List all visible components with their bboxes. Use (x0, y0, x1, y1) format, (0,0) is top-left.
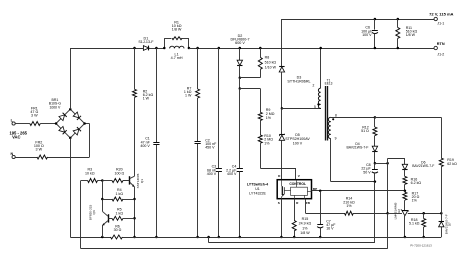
svg-text:1 W: 1 W (143, 97, 150, 101)
svg-text:100 V: 100 V (293, 141, 303, 145)
capacitor C1 (155, 47, 158, 50)
svg-text:4.7 mH: 4.7 mH (171, 56, 183, 60)
wire secondary return line (208, 237, 210, 243)
wire output positive rail (282, 19, 434, 21)
capacitor C7 (319, 190, 322, 193)
U1 internal control block (291, 187, 308, 195)
svg-text:1%: 1% (302, 226, 308, 230)
svg-text:400 V: 400 V (140, 144, 150, 148)
svg-text:D7: D7 (448, 222, 452, 226)
svg-text:3 W: 3 W (31, 114, 38, 118)
resistor R9 (258, 112, 262, 120)
svg-text:CONTROL: CONTROL (289, 182, 306, 186)
wire output rail corner (281, 19, 283, 66)
wire rail D2 to T1 (240, 48, 321, 50)
resistor R5 (112, 216, 123, 220)
wire bridge bottom to ground rail (70, 138, 72, 237)
wire R8 to D2 node (240, 77, 260, 79)
svg-text:1%: 1% (346, 204, 352, 208)
resistor R2 (133, 47, 136, 50)
output terminal J1-2 (434, 46, 437, 49)
shunt regulator U2 LM431 (404, 200, 406, 210)
input terminal L (12, 122, 15, 125)
svg-text:STTH1R06RL: STTH1R06RL (287, 79, 310, 83)
svg-text:400 V: 400 V (207, 172, 217, 176)
svg-text:50 V: 50 V (363, 170, 371, 174)
fusible resistor FR2 (37, 155, 48, 159)
wire fb dot to U2 (388, 213, 402, 215)
svg-text:LYTSwitch-4: LYTSwitch-4 (247, 182, 268, 186)
resistor R1 parallel loop (164, 38, 166, 48)
svg-text:R8: R8 (265, 56, 270, 60)
wire D2 cathode to node (239, 65, 241, 77)
wire secondary pin9 return (330, 139, 332, 182)
svg-text:1/8 W: 1/8 W (406, 33, 416, 37)
svg-text:N: N (10, 152, 13, 156)
diode D7 (441, 213, 443, 221)
svg-text:J1-2: J1-2 (437, 52, 444, 56)
svg-text:J1-1: J1-1 (437, 22, 444, 26)
resistor R3 (81, 180, 88, 182)
wire N to FR2 (15, 157, 37, 159)
resistor R15 (292, 221, 296, 231)
wire node to T1 primary pin5 (282, 108, 321, 110)
diode D3 (279, 66, 284, 68)
wire R14 to fb dot (353, 213, 387, 215)
svg-text:RTN: RTN (437, 42, 445, 46)
svg-text:3 W: 3 W (36, 148, 43, 152)
resistor R4 (101, 198, 104, 201)
svg-text:1%: 1% (264, 141, 270, 145)
wire rail L1 to D2 (189, 48, 240, 50)
wire D4 to bias node (374, 152, 376, 164)
resistor R12 (374, 117, 376, 127)
resistor R7 (196, 47, 199, 50)
svg-text:1%: 1% (412, 199, 418, 203)
svg-text:1/8 W: 1/8 W (300, 231, 310, 235)
svg-text:1000 V: 1000 V (49, 106, 61, 110)
resistor R10 (258, 135, 262, 143)
svg-text:U2: U2 (397, 209, 401, 213)
capacitor C8 (374, 163, 376, 169)
capacitor C6 (374, 18, 377, 21)
svg-text:16 V: 16 V (326, 227, 334, 231)
wire rail T1 to J1-2 (321, 48, 434, 50)
resistor R8 (259, 47, 262, 50)
transformer T1 secondary winding (328, 117, 330, 138)
wire C8 bottom return (374, 182, 376, 243)
svg-text:51 Ω: 51 Ω (361, 129, 369, 133)
svg-text:100 Ω: 100 Ω (114, 171, 124, 175)
fusible resistor FR1 (30, 122, 41, 126)
svg-text:VAC: VAC (12, 134, 20, 139)
svg-text:1 W: 1 W (185, 94, 192, 98)
wire FR2 to bridge right vertex (48, 157, 90, 159)
capacitor C3 (218, 47, 221, 50)
wire bridge top to rail (70, 48, 72, 109)
svg-text:510 kΩ: 510 kΩ (265, 61, 277, 65)
resistor R18 (423, 213, 425, 218)
diode D5 (281, 108, 283, 134)
resistor R19 (441, 117, 443, 158)
svg-text:450 V: 450 V (205, 146, 215, 150)
capacitor C2 (197, 98, 199, 141)
wire rail D1 to L1 (149, 48, 164, 50)
svg-text:600 V: 600 V (235, 41, 245, 45)
diode D1 (143, 46, 148, 51)
svg-text:PI-7200-121613: PI-7200-121613 (410, 243, 432, 247)
wire bias to D6 (387, 158, 389, 163)
svg-text:5.1 kΩ: 5.1 kΩ (409, 222, 420, 226)
wire R16 to BP node (404, 184, 406, 191)
wire S pin to ground (281, 199, 283, 237)
input terminal N (12, 155, 15, 158)
resistor R6 (111, 235, 123, 239)
svg-text:1/10 W: 1/10 W (265, 65, 277, 69)
ground rail junctions (101, 236, 104, 239)
svg-text:1 kΩ: 1 kΩ (116, 192, 124, 196)
svg-text:9: 9 (335, 137, 337, 141)
resistor R20 (112, 179, 123, 183)
svg-text:2: 2 (313, 83, 315, 87)
svg-text:1/8 W: 1/8 W (172, 28, 182, 32)
wire Q3 emitter to ground (102, 226, 104, 238)
svg-text:BAV21WS-7-F: BAV21WS-7-F (347, 146, 369, 150)
wire FB pin (305, 199, 307, 214)
svg-text:10 kΩ: 10 kΩ (85, 171, 95, 175)
transformer T1 primary winding (320, 48, 322, 88)
svg-text:U1: U1 (255, 187, 260, 191)
node rail R3-R20 column (102, 181, 104, 212)
diode D4 (374, 136, 376, 147)
svg-text:24.9 kΩ: 24.9 kΩ (299, 222, 312, 226)
T1 secondary phase dot (332, 118, 334, 120)
wire U2 ref to R18 and D7 (408, 213, 442, 215)
svg-text:30 Ω: 30 Ω (114, 228, 122, 232)
wire D3 anode to node (281, 72, 283, 108)
svg-text:LYT4322E: LYT4322E (249, 191, 266, 195)
svg-text:BAV21WS-7-F: BAV21WS-7-F (412, 164, 434, 168)
svg-text:400 V: 400 V (227, 172, 237, 176)
U1 internal MOSFET (281, 180, 283, 187)
wire D2 node to R9 (240, 88, 260, 90)
transformer T1 core (325, 86, 327, 141)
output terminal J1-1 (434, 17, 437, 20)
svg-text:Q1: Q1 (140, 179, 144, 183)
resistor R11 (397, 18, 400, 21)
wire FR1 to bridge (40, 123, 56, 125)
wire D5 to drain pin (281, 140, 283, 179)
wire R3 rail down (80, 181, 82, 249)
capacitor C4 (239, 89, 241, 169)
wire R10 to V pin (260, 168, 296, 170)
diode D6 (402, 164, 407, 169)
wire main rail (70, 48, 143, 50)
svg-text:72 V, 115 mA: 72 V, 115 mA (429, 11, 453, 16)
transistor Q3 (108, 214, 110, 222)
svg-text:8: 8 (335, 114, 337, 118)
svg-text:1%: 1% (266, 116, 272, 120)
wire feedback bottom line (81, 248, 388, 250)
inductor L1 (170, 46, 184, 48)
svg-text:S1J-13-F: S1J-13-F (138, 40, 154, 44)
svg-text:S: S (278, 201, 280, 205)
diode D2 (239, 47, 242, 50)
wire R pin to R15 (294, 199, 296, 221)
wire L to FR1 (15, 123, 30, 125)
resistor R17 (404, 191, 406, 192)
wire feedback column (387, 163, 389, 213)
resistor R16 (404, 170, 406, 177)
svg-text:6.2 kΩ: 6.2 kΩ (411, 181, 422, 185)
T1 primary phase dot (317, 103, 319, 105)
svg-text:100 V: 100 V (362, 33, 372, 37)
svg-text:Q3: Q3 (92, 210, 96, 214)
wire BP pin (312, 190, 406, 192)
svg-text:1 kΩ: 1 kΩ (116, 211, 124, 215)
wire secondary pin8 to output node (331, 117, 375, 119)
op-amp U1 LYTSwitch-4 IC box (277, 180, 311, 199)
svg-text:R15: R15 (302, 217, 309, 221)
transistor Q1 (129, 176, 131, 184)
bridge rectifier BR1 (56, 109, 70, 123)
svg-text:EE13: EE13 (325, 82, 333, 86)
wire Q1 emitter rail (134, 187, 136, 237)
svg-text:5: 5 (314, 105, 316, 109)
wire bias node to feedback dot (375, 163, 388, 165)
ground rail (70, 237, 110, 239)
svg-text:62 kΩ: 62 kΩ (447, 162, 457, 166)
